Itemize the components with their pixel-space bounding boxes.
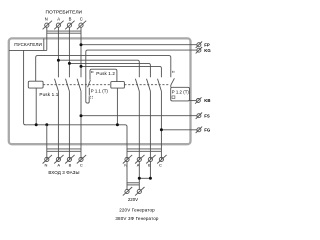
node N drop on N bus (45, 123, 48, 126)
node FP tap on C (80, 43, 83, 46)
wire KB (190, 100, 197, 102)
terminal 220V L (135, 187, 144, 196)
dashed mech link 2 (124, 84, 169, 86)
node coil2 on N bus (116, 123, 119, 126)
wire N bus bottom (25, 125, 128, 160)
wire N route left vertical (24, 50, 26, 124)
wire B top vertical (68, 27, 70, 77)
terminal 220V N (123, 187, 132, 196)
svg-text:KB: KB (204, 98, 210, 103)
terminal A top (54, 21, 63, 30)
node 220V link B (149, 177, 152, 180)
terminal A input (54, 155, 63, 164)
terminal FS (196, 113, 202, 119)
label box ПУСКАТЕЛИ (9, 38, 47, 50)
svg-text:FG: FG (204, 128, 211, 133)
terminal N top (43, 21, 52, 30)
svg-text:ПУСКАТЕЛИ: ПУСКАТЕЛИ (14, 42, 42, 47)
input bus line 2 (47, 150, 81, 152)
wire KG + P1.1 contact U-loop (86, 50, 197, 103)
wire FP tap (81, 44, 197, 46)
svg-text:P 1.2 (Т): P 1.2 (Т) (172, 90, 190, 95)
svg-text:FP: FP (204, 42, 210, 47)
pin square (P1.2 bottom) (172, 96, 175, 99)
terminal KG (196, 47, 202, 53)
wire gen B down to link (149, 162, 151, 179)
consumer bus line 1 (47, 30, 81, 32)
wire A top vertical (57, 27, 59, 77)
contact arm P1.2 (171, 78, 175, 87)
svg-text:380V 3Ф Генератор: 380V 3Ф Генератор (115, 216, 159, 221)
contact K2 pole A (135, 79, 139, 160)
220V bus line 1 (127, 182, 139, 184)
gen bus line 2 (127, 150, 161, 152)
node B staircase (68, 62, 71, 65)
terminal FG (196, 127, 202, 133)
node FG tap (160, 128, 163, 131)
terminal B gen (146, 155, 155, 164)
node FS tap (80, 114, 83, 117)
wire coil1 bottom (35, 88, 37, 125)
svg-text:B: B (69, 162, 72, 167)
wire A staircase (58, 60, 139, 77)
coil Pusk 1.1 (28, 81, 43, 88)
terminal B top (65, 21, 74, 30)
node A staircase (57, 59, 60, 62)
contact K1 pole C (77, 79, 81, 160)
wire FG (161, 129, 197, 131)
input bus line 1 (47, 148, 81, 150)
svg-text:B: B (69, 16, 72, 21)
svg-text:FS: FS (204, 113, 210, 118)
svg-text:ПОТРЕБИТЕЛИ: ПОТРЕБИТЕЛИ (46, 10, 83, 16)
svg-text:KG: KG (204, 48, 211, 53)
node C staircase (80, 65, 83, 68)
control bus wire (36, 56, 171, 82)
wire FS (81, 115, 197, 117)
consumer bus line 2 (47, 32, 81, 34)
gen bus line 1 (127, 148, 161, 150)
wire C staircase (81, 66, 161, 77)
wire B staircase (69, 63, 150, 77)
wire C top vertical (80, 27, 82, 77)
svg-text:N: N (45, 16, 48, 21)
svg-text:Pusk 1.2: Pusk 1.2 (96, 71, 115, 76)
contact K2 pole C (158, 79, 162, 160)
relay box P1.2 (171, 87, 190, 101)
contact arm P1.1 (88, 80, 91, 96)
contact K2 pole B (147, 79, 151, 160)
wire gen A down to 220V (138, 162, 140, 190)
svg-text:P 1.1 (Т): P 1.1 (Т) (91, 88, 109, 93)
terminal C gen (157, 155, 166, 164)
svg-text:N: N (45, 162, 48, 167)
node 220V link A (138, 177, 141, 180)
wire gen N down to 220V (126, 162, 128, 190)
pin marks 12 (P1.1 bottom) (91, 96, 93, 99)
terminal C top (77, 21, 86, 30)
terminal KB (195, 97, 201, 103)
pin marks 11 (box2 top-left) (91, 71, 93, 73)
svg-text:C: C (80, 162, 83, 167)
svg-text:ВХОД 3 ФАЗЫ: ВХОД 3 ФАЗЫ (48, 170, 79, 175)
terminal N input (43, 155, 52, 164)
terminal A gen (135, 155, 144, 164)
relay box Pusk 1.2 (90, 69, 117, 81)
terminal B input (65, 155, 74, 164)
wire N top vertical (46, 27, 48, 50)
wire 220V link A-B (139, 177, 150, 179)
svg-text:C: C (159, 162, 162, 167)
dashed mech link 1 (43, 84, 111, 86)
svg-text:A: A (57, 16, 60, 21)
terminal FP (196, 42, 202, 48)
node coil1 on N bus (35, 123, 38, 126)
terminal C input (77, 155, 86, 164)
svg-text:C: C (80, 16, 83, 21)
svg-text:220V Генератор: 220V Генератор (119, 208, 155, 213)
enclosure box (gray rounded) (9, 38, 191, 144)
220V bus line 2 (127, 184, 139, 186)
wire N drop to input terminal (46, 125, 48, 160)
svg-text:Pusk 1.1: Pusk 1.1 (39, 92, 58, 97)
terminal N gen (123, 155, 132, 164)
wire coil2 bottom (116, 88, 118, 125)
coil Pusk 1.2 (111, 82, 125, 89)
contact K1 pole A (55, 79, 59, 160)
pin marks 11 (P1.2 top) (172, 71, 174, 73)
contact K1 pole B (66, 79, 70, 160)
svg-text:220V: 220V (128, 197, 138, 202)
svg-text:A: A (57, 162, 60, 167)
